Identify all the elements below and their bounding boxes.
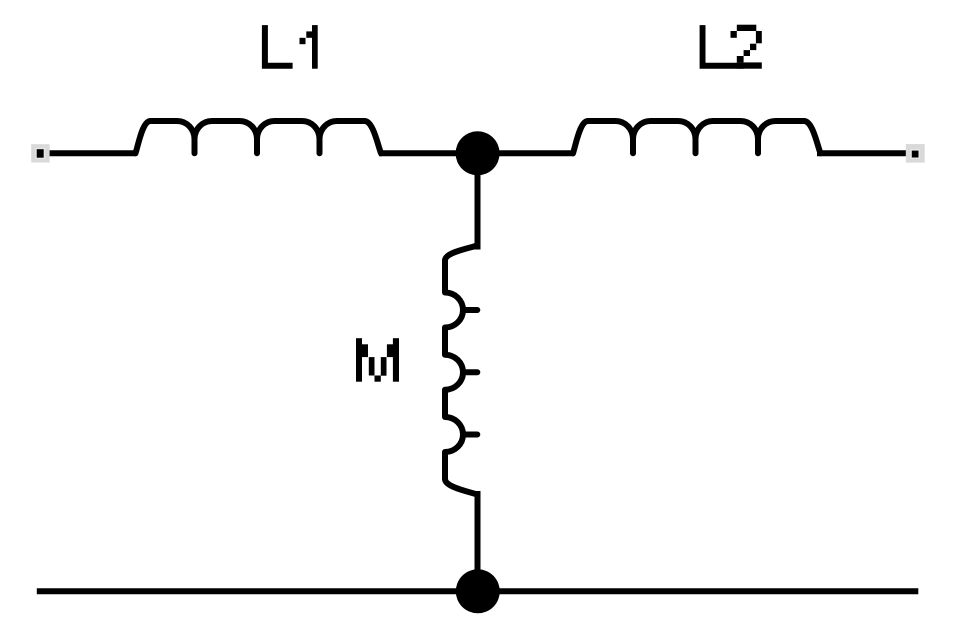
node junction bottom (456, 569, 500, 613)
label M (356, 338, 399, 382)
wire M to bottom node (475, 491, 481, 591)
wire node to L2 (477, 150, 574, 156)
wire left to L1 (50, 150, 136, 156)
inductor L2 (573, 121, 821, 153)
terminal port right (906, 144, 925, 163)
inductor M (445, 246, 477, 495)
wire L2 to right terminal (817, 150, 906, 156)
inductor L1 (136, 121, 382, 153)
wire bottom rail (37, 588, 919, 594)
wire node down to M (475, 153, 481, 250)
label L1 (262, 25, 318, 69)
wire L1 to node (379, 150, 478, 156)
terminal port left (31, 144, 49, 162)
label L2 (700, 25, 762, 69)
node junction top (456, 131, 500, 175)
